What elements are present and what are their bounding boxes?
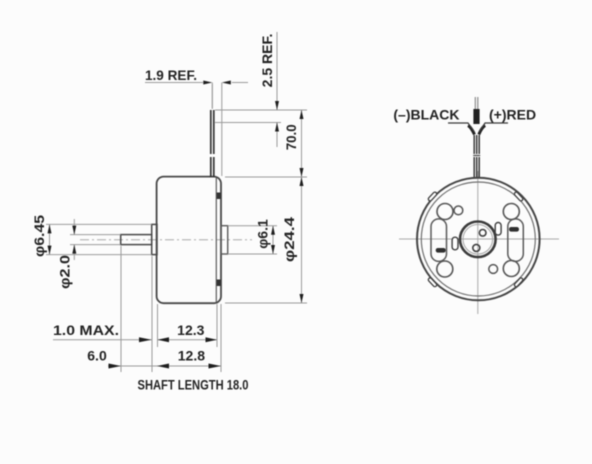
wire flare wings bbox=[468, 126, 475, 135]
outer case circle bbox=[417, 178, 540, 301]
svg-text:φ6.1: φ6.1 bbox=[255, 219, 271, 249]
dimension phi 24.4 bbox=[225, 177, 307, 303]
hole circle bottom-right bbox=[503, 261, 519, 277]
case tab top bbox=[217, 193, 221, 200]
brush slot right bbox=[508, 219, 524, 262]
motor body (side view) bbox=[157, 177, 221, 304]
dimension 70.0 bbox=[215, 110, 307, 177]
rim slot bottom-right bbox=[514, 277, 524, 287]
svg-text:12.8: 12.8 bbox=[178, 348, 205, 364]
hole circle top-right bbox=[503, 204, 519, 220]
hole circle bottom-left bbox=[437, 261, 453, 277]
svg-text:SHAFT LENGTH 18.0: SHAFT LENGTH 18.0 bbox=[138, 377, 249, 393]
svg-text:6.0: 6.0 bbox=[87, 348, 107, 364]
small hole bottom bbox=[489, 265, 498, 274]
svg-text:φ24.4: φ24.4 bbox=[281, 217, 297, 262]
crosshair horizontal bbox=[399, 238, 559, 240]
wire joint tick bbox=[473, 155, 480, 157]
lead wires (end view) bbox=[474, 135, 479, 177]
small hole top bbox=[454, 206, 463, 215]
brush slot left bbox=[431, 219, 447, 262]
inner rim circle bbox=[421, 182, 535, 296]
centerline side view bbox=[80, 239, 252, 241]
front bearing boss bbox=[152, 224, 157, 254]
hole circle top-left bbox=[437, 204, 453, 220]
center hole lower bbox=[473, 244, 480, 251]
svg-text:φ2.0: φ2.0 bbox=[57, 255, 73, 289]
crosshair vertical bbox=[477, 171, 479, 314]
svg-text:1.0 MAX.: 1.0 MAX. bbox=[53, 322, 119, 338]
case tab bottom bbox=[217, 280, 221, 287]
rear boss bbox=[221, 226, 228, 254]
center hole upper bbox=[479, 230, 486, 237]
slot mark right bbox=[509, 227, 519, 232]
svg-text:12.3: 12.3 bbox=[177, 322, 204, 338]
case inner lip line bbox=[215, 178, 217, 303]
svg-text:φ6.45: φ6.45 bbox=[31, 215, 47, 257]
shaft bbox=[121, 235, 152, 245]
svg-text:(–)BLACK: (–)BLACK bbox=[393, 107, 459, 123]
rim slot bottom-left bbox=[428, 277, 438, 287]
lead wire (side view) bbox=[211, 110, 214, 177]
rim slot top-left bbox=[428, 191, 438, 201]
center bearing boss bbox=[460, 222, 496, 258]
wire binding band bbox=[473, 109, 479, 124]
slot mark left bbox=[436, 248, 446, 253]
dimension phi 6.45 bbox=[46, 224, 152, 254]
rim slot top-right bbox=[514, 191, 524, 201]
extension lines below body bbox=[121, 246, 221, 372]
svg-text:(+)RED: (+)RED bbox=[489, 107, 536, 123]
svg-text:1.9 REF.: 1.9 REF. bbox=[145, 67, 197, 83]
dimension phi 2.0 bbox=[70, 219, 121, 260]
side tab left bbox=[452, 237, 458, 250]
svg-text:2.5 REF.: 2.5 REF. bbox=[259, 34, 275, 88]
dimension 2.5 REF. bbox=[215, 32, 281, 147]
dimension phi 6.1 bbox=[228, 226, 277, 254]
svg-text:70.0: 70.0 bbox=[283, 124, 299, 150]
side tab right bbox=[495, 223, 501, 236]
